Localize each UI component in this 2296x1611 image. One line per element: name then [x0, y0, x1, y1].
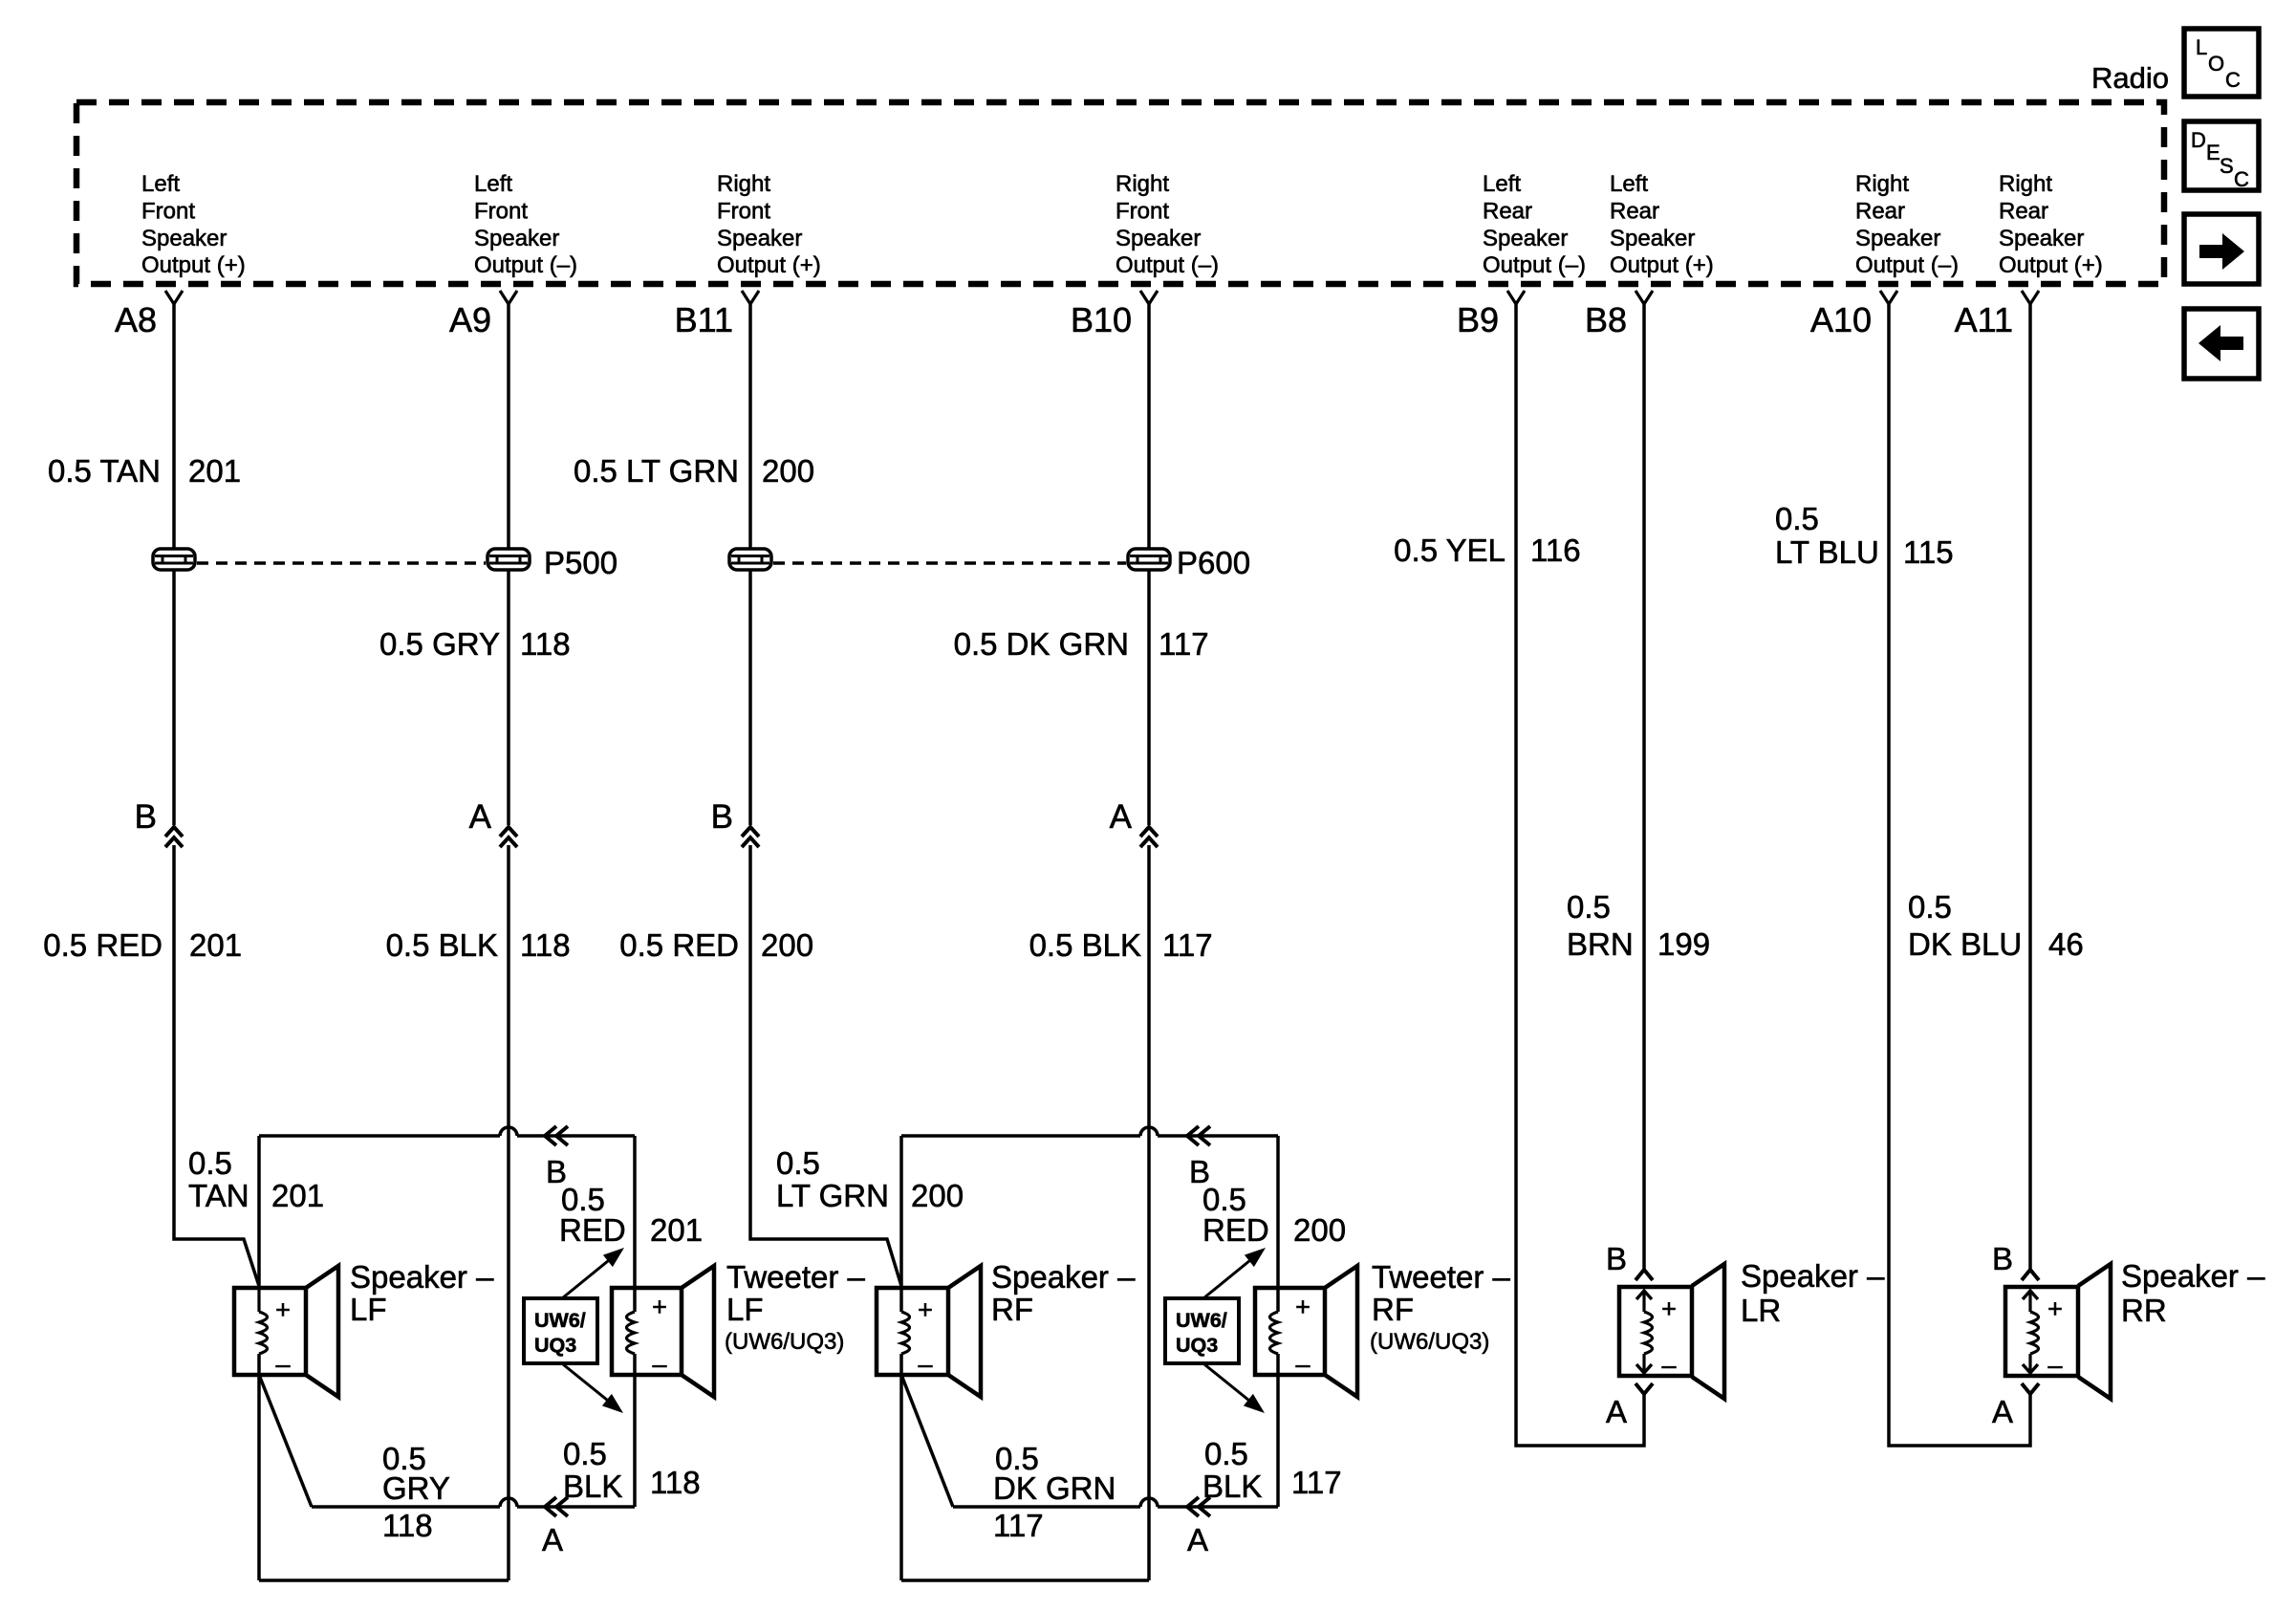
svg-text:DK BLU: DK BLU — [1908, 926, 2022, 962]
speaker LR pigtail chevron top — [1636, 1291, 1652, 1299]
tweeter RF plus terminal label — [1295, 1293, 1310, 1321]
svg-text:+: + — [918, 1295, 933, 1324]
speaker LR voice coil wire — [1642, 1291, 1645, 1373]
label Speaker - RR — [2121, 1258, 2265, 1328]
wire top rail to tweeter LF plus (RED 201) — [259, 1127, 635, 1136]
tweeter LF driver box — [612, 1288, 682, 1375]
speaker LR cone — [1692, 1264, 1724, 1399]
wire A9 GRY 118 upper segment — [507, 304, 510, 825]
connector letter B (RR) — [1992, 1241, 2013, 1276]
speaker RR pigtail chevron top — [2023, 1291, 2038, 1299]
svg-text:B11: B11 — [675, 300, 733, 339]
svg-text:+: + — [2047, 1295, 2063, 1323]
svg-text:Speaker: Speaker — [1999, 226, 2084, 251]
svg-text:Front: Front — [474, 198, 528, 224]
svg-text:B: B — [711, 798, 733, 836]
svg-text:Speaker –: Speaker – — [991, 1259, 1136, 1295]
svg-text:DK GRN: DK GRN — [993, 1470, 1116, 1506]
svg-text:L: L — [2196, 35, 2207, 59]
svg-text:118: 118 — [650, 1465, 701, 1500]
in-line connector break below speaker LR (A) — [1635, 1383, 1653, 1394]
wire label 0.5 LT GRN 200 — [574, 453, 814, 489]
radio pin function label A9 — [474, 171, 577, 278]
svg-text:UQ3: UQ3 — [534, 1334, 576, 1357]
svg-text:Speaker: Speaker — [1483, 226, 1568, 251]
radio pin function label B11 — [717, 171, 821, 278]
pin label A11 — [1955, 300, 2013, 339]
svg-text:B: B — [135, 798, 157, 836]
connector cavity letter B (A8 wire) — [135, 798, 157, 836]
wire label 0.5 BLK 117 — [1029, 927, 1213, 963]
speaker LR plus terminal label — [1661, 1295, 1677, 1323]
forward arrow navigation box — [2184, 214, 2259, 284]
wire B10 DK GRN 117 upper segment — [1147, 304, 1151, 825]
wire label 0.5 RED 201 — [43, 927, 242, 963]
svg-text:Right: Right — [1999, 171, 2052, 197]
speaker RR driver box — [2005, 1287, 2078, 1376]
in-line connector break on B10 wire (A) — [1140, 827, 1158, 847]
svg-text:Speaker: Speaker — [474, 226, 559, 251]
wire label 0.5 RED 200 (tweeter RF) — [1202, 1182, 1346, 1248]
dashed tie line P500 — [197, 561, 486, 565]
svg-text:Speaker: Speaker — [141, 226, 227, 251]
svg-text:0.5: 0.5 — [188, 1145, 232, 1181]
speaker RR plus terminal label — [2047, 1295, 2063, 1323]
connector letter A (RR) — [1992, 1394, 2013, 1429]
svg-text:A: A — [1992, 1394, 2013, 1429]
svg-text:Rear: Rear — [1855, 198, 1905, 224]
wire top rail to tweeter RF plus (RED 200) — [901, 1127, 1278, 1136]
wire A11 DK BLU 46 to speaker RR plus — [2028, 304, 2032, 1272]
wire label 0.5 RED 201 (tweeter LF) — [559, 1182, 703, 1248]
svg-text:LF: LF — [726, 1292, 764, 1327]
wire below RF coil to bottom rail — [899, 1354, 903, 1580]
pass-through grommet on A9 wire (P500) — [487, 549, 530, 570]
pin label B11 — [675, 300, 733, 339]
svg-text:B: B — [1992, 1241, 2013, 1276]
pass-through grommet on B11 wire (P600) — [729, 549, 771, 570]
svg-text:B10: B10 — [1071, 300, 1132, 339]
svg-text:Rear: Rear — [1999, 198, 2048, 224]
svg-text:–: – — [1295, 1350, 1310, 1379]
speaker LF plus terminal label — [275, 1295, 291, 1324]
svg-text:Speaker: Speaker — [717, 226, 802, 251]
tweeter LF voice coil — [627, 1312, 636, 1354]
in-line connector break below speaker RR (A) — [2022, 1383, 2039, 1394]
label Tweeter - LF (UW6/UQ3) — [725, 1259, 866, 1355]
tweeter RF voice coil — [1270, 1312, 1279, 1354]
wire B9 YEL 116 / BRN 199 to speaker LR minus — [1516, 304, 1644, 1446]
speaker RR voice coil — [2030, 1312, 2039, 1354]
speaker RF minus terminal label — [918, 1350, 932, 1379]
wire bottom tweeter rail DK GRN/BLK 117 — [953, 1498, 1278, 1507]
svg-text:200: 200 — [1293, 1212, 1346, 1248]
svg-text:C: C — [2234, 167, 2249, 191]
label Speaker - LF — [350, 1259, 494, 1327]
svg-text:Left: Left — [474, 171, 512, 197]
svg-text:200: 200 — [911, 1178, 964, 1213]
wire RF loop bottom rail to B10 — [901, 1578, 1149, 1582]
svg-text:+: + — [652, 1293, 667, 1321]
in-line connector chevrons B on LF top rail — [545, 1126, 568, 1145]
in-line connector chevrons B on RF top rail — [1187, 1126, 1210, 1145]
pin B10 fork terminal — [1140, 291, 1158, 304]
connector letter B (tweeter LF top rail) — [546, 1154, 567, 1189]
svg-text:LT GRN: LT GRN — [776, 1178, 889, 1213]
svg-text:O: O — [2208, 52, 2224, 76]
svg-text:0.5: 0.5 — [1908, 889, 1952, 925]
svg-text:0.5 BLK: 0.5 BLK — [1029, 927, 1141, 963]
label Tweeter - RF (UW6/UQ3) — [1370, 1259, 1511, 1355]
wire label 0.5 BLK 117 (tweeter RF) — [1202, 1436, 1342, 1504]
svg-text:117: 117 — [993, 1508, 1044, 1543]
arrow UW6/UQ3 to BLK wire (RF) — [1204, 1364, 1265, 1413]
connector letter B (LR) — [1606, 1241, 1627, 1276]
wire label 0.5 GRY 118 — [379, 626, 571, 662]
svg-text:LR: LR — [1741, 1293, 1781, 1328]
pin label A10 — [1810, 300, 1872, 339]
option code box UW6/UQ3 (LF) — [524, 1298, 597, 1363]
radio pin function label B9 — [1483, 171, 1586, 278]
svg-text:201: 201 — [189, 927, 242, 963]
pin A8 fork terminal — [165, 291, 183, 304]
svg-text:RED: RED — [1202, 1212, 1269, 1248]
svg-text:P600: P600 — [1177, 545, 1250, 580]
svg-text:0.5 RED: 0.5 RED — [43, 927, 162, 963]
svg-text:Rear: Rear — [1483, 198, 1532, 224]
svg-text:A9: A9 — [449, 300, 491, 339]
svg-text:Tweeter –: Tweeter – — [1372, 1259, 1511, 1295]
pin B11 fork terminal — [742, 291, 759, 304]
svg-text:117: 117 — [1159, 626, 1209, 662]
svg-text:201: 201 — [650, 1212, 703, 1248]
svg-text:GRY: GRY — [382, 1470, 450, 1506]
svg-text:RR: RR — [2121, 1293, 2167, 1328]
svg-text:Front: Front — [141, 198, 195, 224]
speaker RF plus terminal label — [918, 1295, 933, 1324]
DESC reference box — [2184, 121, 2259, 191]
wire B11 LT GRN 200 upper segment — [748, 304, 752, 825]
svg-text:Right: Right — [1855, 171, 1909, 197]
connector cavity letter B (B11 wire) — [711, 798, 733, 836]
svg-text:Output (–): Output (–) — [1116, 252, 1219, 278]
svg-text:0.5: 0.5 — [1204, 1436, 1248, 1471]
speaker LF voice coil — [259, 1312, 268, 1354]
label P500 — [544, 545, 617, 580]
svg-text:115: 115 — [1903, 534, 1954, 570]
wire below LF coil to bottom rail — [257, 1354, 261, 1580]
svg-text:0.5 BLK: 0.5 BLK — [386, 927, 498, 963]
dashed tie line P600 — [773, 561, 1126, 565]
svg-text:E: E — [2206, 141, 2220, 164]
wire B8 BRN 199 to speaker LR plus — [1642, 304, 1646, 1270]
svg-text:Speaker –: Speaker – — [350, 1259, 494, 1295]
svg-text:RF: RF — [1372, 1292, 1414, 1327]
pin B9 fork terminal — [1507, 291, 1525, 304]
speaker LF driver box — [234, 1288, 306, 1375]
wire A9 BLK 118 lower segment — [507, 845, 510, 1580]
pin label B10 — [1071, 300, 1132, 339]
label Speaker - LR — [1741, 1258, 1885, 1328]
wire A8 RED 201 lower segment to speaker LF — [174, 845, 259, 1286]
pin A9 fork terminal — [500, 291, 517, 304]
svg-text:A: A — [1187, 1522, 1208, 1557]
speaker RF voice coil — [901, 1312, 910, 1354]
svg-text:199: 199 — [1657, 926, 1710, 962]
wire label 0.5 DK GRN 117 (bottom rail RF) — [993, 1441, 1116, 1543]
svg-text:Speaker –: Speaker – — [2121, 1258, 2265, 1294]
speaker RF cone — [948, 1266, 981, 1397]
node: speaker RF feed wire LT GRN 200 (left vertical) — [899, 1136, 903, 1312]
speaker LF minus terminal label — [275, 1350, 290, 1379]
svg-text:A11: A11 — [1955, 300, 2013, 339]
svg-text:A: A — [1110, 798, 1133, 836]
svg-text:0.5 RED: 0.5 RED — [619, 927, 739, 963]
svg-text:Speaker: Speaker — [1855, 226, 1940, 251]
svg-text:201: 201 — [271, 1178, 324, 1213]
speaker LR pigtail chevron bottom — [1636, 1364, 1652, 1373]
svg-text:116: 116 — [1530, 533, 1581, 568]
svg-text:BLK: BLK — [1202, 1469, 1262, 1504]
speaker RF driver box — [877, 1288, 948, 1375]
pin label A8 — [115, 300, 157, 339]
in-line connector break on B11 wire (B) — [742, 827, 759, 847]
svg-text:0.5 YEL: 0.5 YEL — [1394, 533, 1505, 568]
wire bottom tweeter rail GRY/BLK 118 — [312, 1498, 635, 1507]
svg-text:–: – — [2047, 1351, 2062, 1380]
connector cavity letter A (A9 wire) — [469, 798, 492, 836]
svg-text:Right: Right — [1116, 171, 1169, 197]
svg-text:B9: B9 — [1457, 300, 1499, 339]
connector cavity letter A (B10 wire) — [1110, 798, 1133, 836]
tweeter RF feed wire (right vertical RED 200 / BLK 117) — [1276, 1136, 1280, 1507]
wire label 0.5 TAN 201 (at speaker LF) — [188, 1145, 324, 1213]
speaker RR cone — [2078, 1264, 2111, 1399]
svg-text:Left: Left — [141, 171, 180, 197]
LOC reference box — [2184, 29, 2259, 97]
svg-text:UW6/: UW6/ — [1176, 1309, 1227, 1332]
svg-text:B: B — [1606, 1241, 1627, 1276]
svg-text:P500: P500 — [544, 545, 617, 580]
speaker RR pigtail chevron bottom — [2023, 1364, 2038, 1373]
svg-text:–: – — [1661, 1351, 1676, 1380]
radio pin function label A8 — [141, 171, 246, 278]
pin label B9 — [1457, 300, 1499, 339]
svg-text:B8: B8 — [1585, 300, 1627, 339]
in-line connector chevrons A on LF bottom tweeter rail — [545, 1497, 568, 1516]
arrow UW6/UQ3 to BLK wire (LF) — [563, 1364, 623, 1413]
pass-through grommet on A8 wire (P500) — [153, 549, 195, 570]
svg-text:117: 117 — [1291, 1465, 1342, 1500]
svg-text:LF: LF — [350, 1292, 387, 1327]
svg-text:D: D — [2191, 128, 2206, 152]
svg-text:–: – — [652, 1350, 666, 1379]
wire A10 LT BLU 115 / DK BLU 46 to speaker RR minus — [1889, 304, 2030, 1446]
tweeter RF cone — [1325, 1266, 1357, 1397]
wire B11 RED 200 lower segment to speaker RF — [750, 845, 901, 1286]
speaker LF cone — [306, 1266, 338, 1397]
svg-text:A: A — [469, 798, 492, 836]
speaker LR minus terminal label — [1661, 1351, 1676, 1380]
svg-text:(UW6/UQ3): (UW6/UQ3) — [725, 1329, 844, 1355]
wire label 0.5 TAN 201 — [48, 453, 241, 489]
radio component dashed outline box — [76, 102, 2164, 284]
svg-text:200: 200 — [762, 453, 814, 489]
svg-text:S: S — [2220, 154, 2234, 178]
svg-text:LT BLU: LT BLU — [1775, 534, 1879, 570]
svg-text:+: + — [275, 1295, 291, 1324]
wire label 0.5 LT GRN 200 (at speaker RF) — [776, 1145, 964, 1213]
svg-text:Speaker –: Speaker – — [1741, 1258, 1885, 1294]
svg-text:0.5 DK GRN: 0.5 DK GRN — [954, 626, 1129, 662]
arrow UW6/UQ3 to RED wire (RF) — [1203, 1248, 1266, 1298]
svg-text:Output (–): Output (–) — [474, 252, 577, 278]
speaker LR voice coil — [1644, 1312, 1653, 1354]
label Speaker - RF — [991, 1259, 1136, 1327]
svg-text:Rear: Rear — [1610, 198, 1659, 224]
tweeter LF feed wire (right vertical RED 201 / BLK 118) — [633, 1136, 637, 1507]
wire label 0.5 DK BLU 46 — [1908, 889, 2084, 962]
svg-text:Speaker: Speaker — [1610, 226, 1695, 251]
tweeter LF plus terminal label — [652, 1293, 667, 1321]
svg-text:117: 117 — [1162, 927, 1213, 963]
pin B8 fork terminal — [1635, 291, 1653, 304]
svg-text:(UW6/UQ3): (UW6/UQ3) — [1370, 1329, 1489, 1355]
radio pin function label A11 — [1999, 171, 2103, 278]
in-line connector break above speaker LR (B) — [1635, 1270, 1653, 1280]
tweeter RF minus terminal label — [1295, 1350, 1310, 1379]
svg-text:0.5: 0.5 — [776, 1145, 820, 1181]
svg-text:Left: Left — [1483, 171, 1521, 197]
node: speaker LF feed wire TAN 201 (left vertical) — [257, 1136, 261, 1312]
svg-text:BLK: BLK — [563, 1469, 622, 1504]
wire label 0.5 RED 200 — [619, 927, 813, 963]
label Radio — [2091, 61, 2169, 95]
wire B10 BLK 117 lower segment — [1147, 845, 1151, 1580]
svg-text:Radio: Radio — [2091, 61, 2169, 95]
svg-text:Output (+): Output (+) — [1999, 252, 2103, 278]
connector letter A (LR) — [1606, 1394, 1627, 1429]
connector letter B (tweeter RF top rail) — [1189, 1154, 1210, 1189]
svg-text:0.5 TAN: 0.5 TAN — [48, 453, 161, 489]
svg-text:0.5 LT GRN: 0.5 LT GRN — [574, 453, 739, 489]
svg-text:201: 201 — [188, 453, 241, 489]
wire label 0.5 BLK 118 — [386, 927, 571, 963]
wire label 0.5 DK GRN 117 — [954, 626, 1209, 662]
radio pin function label B10 — [1116, 171, 1219, 278]
option code box UW6/UQ3 (RF) — [1165, 1298, 1239, 1363]
svg-text:Right: Right — [717, 171, 770, 197]
in-line connector chevrons A on RF bottom tweeter rail — [1187, 1497, 1210, 1516]
svg-text:A: A — [542, 1522, 563, 1557]
connector letter A (tweeter RF bottom rail) — [1187, 1522, 1208, 1557]
label P600 — [1177, 545, 1250, 580]
wire label 0.5 BRN 199 — [1567, 889, 1710, 962]
svg-text:0.5 GRY: 0.5 GRY — [379, 626, 500, 662]
wire speaker LF minus diagonal to bottom tweeter rail — [259, 1375, 312, 1507]
svg-text:TAN: TAN — [188, 1178, 249, 1213]
tweeter LF minus terminal label — [652, 1350, 666, 1379]
svg-text:A8: A8 — [115, 300, 157, 339]
wire label 0.5 LT BLU 115 — [1775, 501, 1954, 570]
svg-text:46: 46 — [2048, 926, 2084, 962]
svg-text:Front: Front — [1116, 198, 1169, 224]
speaker LR driver box — [1619, 1287, 1692, 1376]
svg-text:118: 118 — [520, 626, 571, 662]
in-line connector break above speaker RR (B) — [2022, 1270, 2039, 1280]
wire label 0.5 BLK 118 (tweeter LF) — [563, 1436, 701, 1504]
svg-text:0.5: 0.5 — [1567, 889, 1611, 925]
svg-text:118: 118 — [520, 927, 571, 963]
pass-through grommet on B10 wire (P600) — [1128, 549, 1170, 570]
svg-text:A10: A10 — [1810, 300, 1872, 339]
speaker RR voice coil wire — [2028, 1291, 2031, 1373]
radio pin function label B8 — [1610, 171, 1714, 278]
svg-text:118: 118 — [382, 1508, 433, 1543]
svg-text:RF: RF — [991, 1292, 1033, 1327]
svg-text:Output (–): Output (–) — [1483, 252, 1586, 278]
svg-text:+: + — [1295, 1293, 1310, 1321]
svg-text:200: 200 — [761, 927, 813, 963]
pin label B8 — [1585, 300, 1627, 339]
svg-text:Output (+): Output (+) — [141, 252, 246, 278]
wire LF loop bottom rail to A9 — [259, 1578, 509, 1582]
svg-text:–: – — [275, 1350, 290, 1379]
tweeter LF cone — [682, 1266, 714, 1397]
pin A10 fork terminal — [1880, 291, 1897, 304]
svg-text:Tweeter –: Tweeter – — [726, 1259, 866, 1295]
pin A11 fork terminal — [2022, 291, 2039, 304]
in-line connector break on A8 wire (B) — [165, 827, 183, 847]
wire label 0.5 YEL 116 — [1394, 533, 1580, 568]
svg-text:Front: Front — [717, 198, 770, 224]
svg-text:Output (+): Output (+) — [1610, 252, 1714, 278]
wire label 0.5 GRY 118 (bottom rail LF) — [382, 1441, 450, 1543]
svg-text:C: C — [2225, 68, 2241, 92]
wire A8 TAN 201 upper segment — [172, 304, 176, 825]
backward arrow navigation box — [2184, 309, 2259, 379]
connector letter A (tweeter LF bottom rail) — [542, 1522, 563, 1557]
svg-text:RED: RED — [559, 1212, 626, 1248]
speaker RR minus terminal label — [2047, 1351, 2062, 1380]
in-line connector break on A9 wire (A) — [500, 827, 517, 847]
svg-text:BRN: BRN — [1567, 926, 1634, 962]
svg-text:A: A — [1606, 1394, 1627, 1429]
tweeter RF driver box — [1255, 1288, 1325, 1375]
svg-text:0.5: 0.5 — [1775, 501, 1819, 536]
svg-text:Output (–): Output (–) — [1855, 252, 1959, 278]
svg-text:+: + — [1661, 1295, 1677, 1323]
svg-text:UW6/: UW6/ — [534, 1309, 586, 1332]
svg-text:Left: Left — [1610, 171, 1648, 197]
arrow UW6/UQ3 to RED wire (LF) — [562, 1248, 624, 1298]
svg-text:0.5: 0.5 — [563, 1436, 607, 1471]
svg-text:Speaker: Speaker — [1116, 226, 1201, 251]
radio pin function label A10 — [1855, 171, 1959, 278]
svg-text:Output (+): Output (+) — [717, 252, 821, 278]
svg-text:UQ3: UQ3 — [1176, 1334, 1218, 1357]
wire speaker RF minus diagonal to bottom tweeter rail — [901, 1375, 953, 1507]
pin label A9 — [449, 300, 491, 339]
svg-text:–: – — [918, 1350, 932, 1379]
